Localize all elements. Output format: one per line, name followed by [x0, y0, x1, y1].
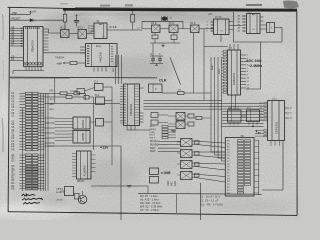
- wire CPU pin D0: [10, 57, 24, 59]
- svg-text:+5VDC: +5VDC: [56, 200, 64, 202]
- svg-text:A2 D: A2 D: [150, 125, 155, 128]
- wire RAM left pin: [72, 164, 77, 166]
- svg-text:+5V: +5V: [57, 62, 62, 66]
- wire U7 top pin: [229, 107, 231, 111]
- resistor R7: [131, 15, 135, 23]
- wire bus to U9: [222, 114, 264, 116]
- resistor R5: [60, 92, 67, 95]
- wire RAM right pin: [91, 171, 96, 173]
- wire ROM left pin: [120, 90, 124, 92]
- wire U5 left pin: [242, 30, 247, 32]
- wire ROM left pin: [120, 122, 124, 124]
- wire bus to U9: [222, 119, 264, 121]
- svg-text:RD. WR - 10 kHz: RD. WR - 10 kHz: [140, 201, 161, 205]
- wire x283 vertical: [282, 141, 284, 191]
- wire CPU right pin: [43, 28, 49, 30]
- op U9: [268, 101, 285, 141]
- svg-text:DATA 4: DATA 4: [56, 188, 64, 191]
- wire cassette gate in: [177, 141, 181, 143]
- op small S7: [150, 177, 159, 184]
- svg-text:WAIT: WAIT: [150, 150, 156, 153]
- wire U4 left pin: [211, 24, 214, 26]
- wire CPU bottom bus: [13, 70, 44, 72]
- svg-text:RX: RX: [178, 90, 182, 92]
- wire bus row lower: [222, 123, 264, 125]
- wire bus vertical 2: [214, 57, 216, 155]
- op B2: [73, 131, 90, 144]
- svg-text:IC X: IC X: [248, 11, 253, 13]
- svg-text:MR. IQ - 3.58 MHz: MR. IQ - 3.58 MHz: [140, 205, 163, 209]
- svg-text:X8255A: X8255A: [82, 119, 85, 128]
- wire S3 out: [104, 121, 113, 123]
- gate G3: [152, 25, 161, 33]
- wire buffer bottom pin: [97, 67, 99, 72]
- wire CPU right pin: [43, 43, 49, 45]
- wire U9 left pin: [264, 108, 267, 110]
- svg-text:KB: KB: [241, 136, 245, 138]
- wire CPU right pin: [43, 49, 49, 51]
- wire V1 left pin: [223, 57, 226, 59]
- wire V1-U7: [231, 95, 233, 110]
- capacitor C6: [188, 114, 194, 118]
- wire V1 right pin: [241, 57, 247, 59]
- op keyboard connector KB1: [225, 138, 254, 197]
- wire caps up: [152, 43, 154, 56]
- wire U8 bottom pin: [256, 122, 258, 126]
- wire ROM left pin: [120, 93, 124, 95]
- wire ROM bottom pin: [134, 126, 136, 131]
- wire y97: [45, 96, 67, 98]
- wire bus to U9: [222, 111, 264, 113]
- wire bus elbow 2: [215, 154, 226, 156]
- wire ROM row: [135, 104, 140, 106]
- svg-text:CDP1852: CDP1852: [275, 121, 279, 134]
- svg-text:EAR: EAR: [174, 181, 177, 186]
- wire B pin: [70, 139, 74, 141]
- capacitor gate C: [195, 152, 200, 156]
- wire U9 left pin: [264, 102, 267, 104]
- wire CPU right pin: [43, 37, 49, 39]
- svg-text:XX-C: XX-C: [151, 23, 157, 25]
- wire CPU bottom pin: [37, 66, 39, 70]
- svg-text:A0A7: A0A7: [211, 64, 214, 70]
- wire U9 left pin: [264, 113, 267, 115]
- wire gate-KB: [192, 144, 225, 148]
- wire x93 vertical: [93, 97, 95, 150]
- wire buffer left pin: [80, 49, 86, 51]
- wire G5 out: [199, 28, 214, 30]
- op small S9: [151, 120, 158, 125]
- wire bus elbow 4: [222, 160, 226, 162]
- wire ROM left pin: [120, 85, 124, 87]
- wire CPU pin A1: [10, 30, 24, 32]
- op B1: [73, 117, 90, 129]
- wire U4 right pin: [229, 21, 234, 23]
- wire bus vertical 3: [217, 57, 219, 158]
- op U3: [94, 23, 107, 39]
- wire ROM row: [135, 111, 140, 113]
- wire RAM left pin: [72, 167, 77, 169]
- legend separator line: [138, 192, 262, 195]
- wire ROM left pin: [120, 101, 124, 103]
- wire matrix top row resistors: [45, 92, 61, 94]
- wire ROM top bus 2: [118, 55, 120, 84]
- wire U7 bottom pin: [237, 122, 239, 126]
- wire ROM left pin: [120, 98, 124, 100]
- svg-text:ADC 240r: ADC 240r: [246, 59, 262, 63]
- wire G11-IC1: [85, 88, 95, 92]
- wire U8 bottom pin: [252, 122, 254, 126]
- capacitor C2: [152, 35, 158, 39]
- svg-text:C1. C5 - 0.1 uF: C1. C5 - 0.1 uF: [200, 198, 219, 202]
- wire RAM right pin: [91, 167, 96, 169]
- wire U9 bottom pin: [274, 141, 276, 147]
- wire IC1 out: [103, 86, 112, 88]
- capacitor C1: [76, 15, 78, 21]
- wire U5 left pin: [242, 15, 247, 17]
- svg-text:XROM: XROM: [77, 181, 84, 183]
- wire y42 horizontal: [234, 41, 283, 43]
- wire ROM row: [135, 119, 140, 121]
- svg-text:WR X: WR X: [150, 137, 156, 139]
- matrix column wires: [40, 93, 42, 191]
- wire ROM left pin: [120, 96, 124, 98]
- wire RESET: [10, 19, 63, 21]
- wire RAM left pin: [72, 155, 77, 157]
- svg-text:+5V: +5V: [208, 14, 213, 16]
- svg-text:~2.4MHz: ~2.4MHz: [248, 64, 262, 68]
- wire ROM left pin: [120, 114, 124, 116]
- wire x112 vertical: [111, 87, 113, 165]
- wire x121 vertical: [120, 146, 122, 220]
- wire B pin: [70, 118, 74, 120]
- svg-text:ROM4 4: ROM4 4: [56, 192, 65, 194]
- resistor R6: [74, 92, 80, 95]
- wire U3 pin: [91, 25, 94, 27]
- +5V arrow: [30, 11, 32, 14]
- resistor R1: [63, 14, 67, 22]
- wire V1 left pin: [223, 79, 226, 81]
- wire V1 left pin: [223, 60, 226, 62]
- wire ROM right pin: [140, 121, 144, 123]
- wire CPU right pin: [43, 34, 49, 36]
- gate G6: [176, 113, 185, 121]
- wire S8 out: [158, 114, 168, 116]
- wire V1 right pin: [241, 54, 247, 56]
- svg-text:TP: TP: [171, 130, 176, 134]
- wire RAM right pin: [91, 154, 96, 156]
- wire U9 left pin low: [264, 130, 267, 132]
- wire V1 top pin: [233, 44, 235, 50]
- wire U7 top pin: [237, 107, 239, 111]
- resistor R2: [70, 62, 77, 65]
- wire V1 top pin: [237, 44, 239, 50]
- wire ROM left pin: [120, 109, 124, 111]
- wire buffer bottom pin: [101, 67, 103, 72]
- svg-text:REM: REM: [167, 181, 170, 186]
- wire U3 pin: [91, 33, 94, 35]
- wire x233 vertical: [233, 12, 235, 42]
- svg-text:IC XX: IC XX: [216, 17, 222, 19]
- wire V1 right pin: [241, 77, 247, 79]
- section divider line: [10, 76, 157, 79]
- wire ROM bottom pin: [130, 126, 132, 131]
- svg-text:CLK: CLK: [159, 79, 167, 83]
- wire CPU bottom pin: [34, 66, 36, 70]
- op small S5: [65, 187, 74, 196]
- wire RAM left pin: [72, 176, 77, 178]
- transistor Q1: [78, 195, 87, 204]
- wire U4 left pin: [211, 21, 214, 23]
- wire ROM row: [135, 98, 140, 100]
- wire ROM left pin: [120, 106, 124, 108]
- gate G11: [181, 172, 193, 180]
- svg-text:Z80ACPU: Z80ACPU: [31, 40, 35, 52]
- wire V1 right pin: [241, 61, 247, 63]
- wire bus to U9: [222, 102, 264, 104]
- svg-text:+5V: +5V: [49, 91, 54, 93]
- wire ROM top bus 3: [121, 55, 123, 84]
- wire H1-R3: [162, 92, 178, 94]
- wire CPU bottom pin: [28, 66, 30, 70]
- wire bus vertical 1: [210, 57, 212, 152]
- wire U9 right pin: [285, 117, 290, 119]
- op U5: [247, 14, 261, 34]
- svg-text:D0D7: D0D7: [219, 68, 221, 74]
- wire V1 left pin: [223, 63, 226, 65]
- wire ROM left pin: [120, 117, 124, 119]
- wire CPU to G1: [49, 32, 61, 34]
- wire ROM bottom bus: [127, 129, 150, 131]
- svg-text:IC-1: IC-1: [94, 82, 99, 84]
- wire RAM right pin: [91, 158, 96, 160]
- svg-text:X8255B: X8255B: [83, 132, 85, 141]
- wire buffer bottom pin: [93, 67, 95, 72]
- wire ROM right pin: [140, 112, 144, 114]
- svg-text:TP: TP: [127, 185, 132, 189]
- wire U9 left pin: [264, 119, 267, 121]
- capacitor C4: [150, 55, 163, 57]
- op U4: [214, 19, 230, 35]
- wire U5-U6: [264, 24, 267, 26]
- wire ROM left pin: [120, 104, 124, 106]
- svg-text:HALT: HALT: [150, 147, 156, 150]
- matrix extended rows: [45, 102, 55, 104]
- wire ROM row: [135, 117, 140, 119]
- gate G5: [191, 25, 200, 33]
- svg-text:A0. A15 - 1 kHz: A0. A15 - 1 kHz: [140, 198, 159, 202]
- wire S9 out: [158, 122, 168, 124]
- wire bus to U9: [222, 105, 264, 107]
- wires matrix to B1/B2: [55, 118, 70, 120]
- wire G7 in: [168, 123, 176, 125]
- wire ROM top bus 1: [115, 55, 117, 84]
- op small S2: [84, 96, 89, 100]
- wire ROM row: [135, 96, 140, 98]
- capacitor C5: [159, 56, 161, 59]
- op CPU U1: [24, 27, 44, 67]
- wire V1 left pin: [223, 89, 226, 91]
- svg-text:C 1.5: C 1.5: [110, 25, 117, 29]
- wire y186: [91, 185, 148, 187]
- svg-text:IORQ: IORQ: [150, 132, 156, 134]
- wire CPU pin A7: [10, 45, 24, 47]
- wire U9 left pin low: [264, 135, 267, 137]
- capacitor C7: [188, 122, 194, 126]
- svg-text:s OdB: s OdB: [161, 171, 171, 175]
- op small S4: [75, 194, 80, 200]
- svg-text:XX. XX - 2 MHz: XX. XX - 2 MHz: [140, 208, 159, 212]
- svg-text:MREQ: MREQ: [150, 129, 157, 131]
- wire ROM left pin: [120, 119, 124, 121]
- svg-text:IC-2: IC-2: [95, 95, 100, 97]
- stray marks top edge: [60, 1, 299, 9]
- wire CPU right pin: [43, 40, 49, 42]
- svg-text:74HC245: 74HC245: [99, 51, 103, 63]
- wire B pin: [70, 130, 74, 132]
- CPU bottom label rows: [24, 61, 44, 63]
- wire B pin: [70, 136, 74, 138]
- wire U5 right pin: [260, 16, 264, 18]
- wire ROM right pin: [140, 87, 144, 89]
- gate G7: [176, 121, 185, 129]
- wire ROM row: [135, 93, 140, 95]
- op buffer U2: [86, 44, 118, 67]
- wire osc mid: [142, 28, 152, 30]
- wire U5 left pin: [242, 18, 247, 20]
- wire x200 vertical: [200, 183, 202, 220]
- wire y146: [48, 145, 121, 147]
- wire B pin: [70, 121, 74, 123]
- border frame top: [8, 7, 76, 8]
- wire CPU right pin: [43, 31, 49, 33]
- wire G6 in: [168, 115, 176, 117]
- op U7: [228, 110, 242, 122]
- +5V arrow R1: [64, 10, 66, 13]
- wire gate-KB: [192, 174, 225, 177]
- wire RAM left pin: [72, 158, 77, 160]
- wire bus to U9: [222, 108, 264, 110]
- op H1: [149, 84, 163, 93]
- wire C6-R4: [194, 117, 196, 119]
- wire gate-KB: [192, 141, 225, 143]
- wire CPU bottom pin: [25, 66, 27, 70]
- wire cassette gate in: [177, 152, 181, 154]
- svg-text:4116RAM: 4116RAM: [84, 166, 87, 176]
- wire B pin: [70, 124, 74, 126]
- resistor R4: [196, 117, 202, 120]
- wire ROM left pin: [120, 111, 124, 113]
- svg-text:X X: X X: [229, 48, 233, 50]
- wire buffer left pin: [80, 46, 86, 48]
- wire G7-C7: [185, 123, 188, 125]
- wire V1 right pin: [241, 71, 247, 73]
- op IC1: [95, 84, 104, 91]
- op U6: [267, 23, 275, 33]
- gate G1: [61, 30, 70, 38]
- ground symbol caps: [150, 63, 163, 65]
- op IC2: [96, 97, 105, 105]
- wire U9 left pin: [264, 111, 267, 113]
- svg-text:SO.1: SO.1: [78, 27, 84, 30]
- svg-text:XX-C: XX-C: [190, 23, 196, 25]
- svg-text:D0. D7 - 1 kHz: D0. D7 - 1 kHz: [140, 194, 158, 198]
- wire U8 bottom pin: [248, 122, 250, 126]
- wire gate-KB: [192, 155, 225, 158]
- capacitor gate C: [195, 163, 200, 167]
- wire diagonal: [170, 57, 181, 84]
- wire V1 right pin: [241, 67, 247, 69]
- svg-text:74HC04: 74HC04: [55, 56, 64, 59]
- wire U3 pin: [91, 30, 94, 32]
- paper edge shadow: [2, 14, 3, 152]
- wire G2-U3: [87, 33, 92, 35]
- wire U4 right pin: [229, 25, 234, 27]
- wire V1 left pin: [223, 85, 226, 87]
- crystal X1: [162, 17, 167, 21]
- wire IC2 out: [105, 100, 113, 102]
- capacitor C3: [171, 35, 177, 40]
- wire U9 right pin: [285, 107, 290, 109]
- wire U3 out: [107, 29, 142, 31]
- wire U9 bottom pin: [279, 141, 281, 147]
- wire U5 right pin: [260, 20, 264, 22]
- wire CPU pin A3: [10, 35, 24, 37]
- wire U5 left pin: [242, 21, 247, 23]
- wire bus vertical 4: [221, 57, 223, 161]
- wire RAM left pin: [72, 153, 77, 155]
- border frame right: [296, 11, 298, 215]
- wire CPU bottom pin: [40, 66, 42, 70]
- wire U9 left pin: [264, 116, 267, 118]
- wire ROM right pin: [140, 118, 144, 120]
- wire CPU pin A5: [10, 40, 24, 42]
- wire U5 right pin: [260, 24, 264, 26]
- svg-text:X1 - 10 uF / 16 V: X1 - 10 uF / 16 V: [200, 194, 221, 198]
- wire CPU pin A4: [10, 37, 24, 39]
- wire U5 left pin: [242, 27, 247, 29]
- wire CPU pin A0: [10, 27, 24, 29]
- wire G11 in: [70, 90, 77, 92]
- wire V1 right pin: [241, 87, 247, 89]
- wire CPU to buffer: [43, 52, 86, 54]
- wire V1 left pin: [223, 76, 226, 78]
- wire U4 left pin: [211, 30, 214, 32]
- wire ROM row: [135, 90, 140, 92]
- wire U9 bottom pin: [270, 141, 272, 147]
- op small S1: [66, 96, 72, 99]
- wire CPU pin D1: [10, 59, 24, 61]
- svg-text:KO85CPU: KO85CPU: [232, 73, 236, 85]
- wire y46: [204, 46, 228, 48]
- wire osc loop left: [141, 21, 143, 29]
- wire buffer bottom pin: [105, 67, 107, 72]
- wire V1 left pin: [223, 66, 226, 68]
- op RAM U11: [77, 151, 92, 179]
- wire G1-G2: [69, 33, 78, 35]
- wire buffer left pin: [80, 52, 86, 54]
- border frame bottom: [8, 212, 297, 216]
- wire U7-U8: [241, 115, 247, 117]
- wire cassette gate in: [177, 163, 181, 165]
- wire gate-KB: [192, 166, 225, 170]
- wire RAM left pin: [72, 170, 77, 172]
- wire V1 left pin: [223, 82, 226, 84]
- wire down x193: [193, 33, 195, 93]
- svg-text:+5V: +5V: [32, 12, 37, 14]
- wire U7 top pin: [233, 107, 235, 111]
- wire U3 pin: [91, 28, 94, 30]
